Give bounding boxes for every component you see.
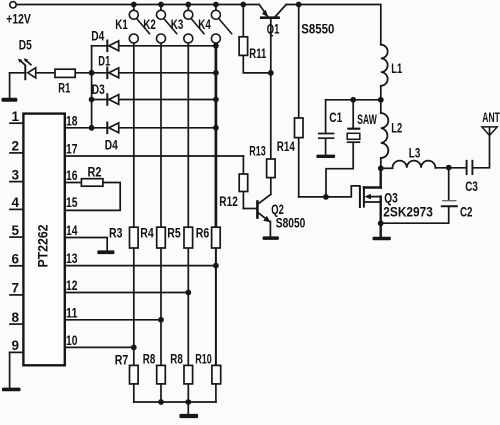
svg-text:+12V: +12V xyxy=(6,12,31,27)
svg-text:1: 1 xyxy=(12,109,20,124)
svg-text:7: 7 xyxy=(12,281,20,296)
svg-text:R14: R14 xyxy=(277,139,295,154)
svg-text:C1: C1 xyxy=(329,110,342,125)
svg-text:5: 5 xyxy=(12,223,20,238)
svg-text:R1: R1 xyxy=(58,81,70,96)
svg-text:L1: L1 xyxy=(391,61,402,76)
svg-text:K2: K2 xyxy=(143,17,156,32)
svg-text:R8: R8 xyxy=(170,352,183,367)
svg-text:L2: L2 xyxy=(391,120,402,135)
svg-text:13: 13 xyxy=(66,251,78,266)
svg-text:R6: R6 xyxy=(196,225,210,240)
svg-text:D4: D4 xyxy=(91,28,104,43)
svg-text:S8550: S8550 xyxy=(301,21,334,36)
svg-text:C2: C2 xyxy=(460,205,473,220)
svg-text:R4: R4 xyxy=(140,225,154,240)
svg-text:12: 12 xyxy=(66,278,78,293)
svg-text:8: 8 xyxy=(12,310,20,325)
svg-text:10: 10 xyxy=(66,333,78,348)
svg-text:R7: R7 xyxy=(115,353,129,368)
svg-text:SAW: SAW xyxy=(357,112,377,127)
svg-text:D4: D4 xyxy=(105,137,118,152)
svg-text:D5: D5 xyxy=(19,38,32,53)
svg-text:C3: C3 xyxy=(465,179,478,194)
svg-text:16: 16 xyxy=(66,168,78,183)
svg-text:Q1: Q1 xyxy=(267,21,280,36)
svg-text:R8: R8 xyxy=(143,352,156,367)
svg-text:R13: R13 xyxy=(249,143,266,158)
svg-text:R11: R11 xyxy=(249,46,266,61)
svg-text:3: 3 xyxy=(12,167,20,182)
svg-text:Q3: Q3 xyxy=(384,190,398,205)
svg-text:17: 17 xyxy=(66,142,78,157)
svg-text:11: 11 xyxy=(66,305,78,320)
svg-text:4: 4 xyxy=(12,195,20,210)
svg-text:ANT: ANT xyxy=(482,110,500,125)
svg-text:D1: D1 xyxy=(98,53,110,68)
svg-text:6: 6 xyxy=(12,252,20,267)
svg-text:K1: K1 xyxy=(115,17,128,32)
svg-text:R12: R12 xyxy=(219,194,238,209)
svg-text:9: 9 xyxy=(12,338,20,353)
svg-text:2SK2973: 2SK2973 xyxy=(383,204,433,219)
svg-text:18: 18 xyxy=(66,113,78,128)
svg-text:15: 15 xyxy=(66,195,78,210)
svg-text:K4: K4 xyxy=(198,17,211,32)
svg-text:14: 14 xyxy=(66,223,78,238)
svg-text:R2: R2 xyxy=(88,164,102,179)
svg-text:R5: R5 xyxy=(167,225,181,240)
svg-text:R10: R10 xyxy=(195,352,212,367)
svg-text:L3: L3 xyxy=(409,145,421,160)
svg-text:R3: R3 xyxy=(109,225,123,240)
svg-text:2: 2 xyxy=(12,139,20,154)
svg-text:S8050: S8050 xyxy=(276,215,306,230)
svg-text:K3: K3 xyxy=(171,17,184,32)
svg-text:PT2262: PT2262 xyxy=(36,225,51,268)
svg-text:D3: D3 xyxy=(92,82,105,97)
